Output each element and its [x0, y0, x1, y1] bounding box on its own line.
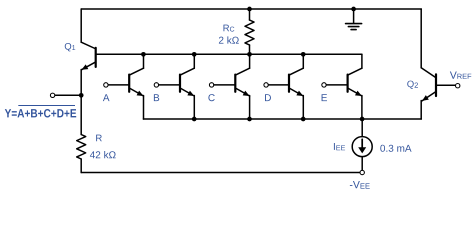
- wire Y output lead: [55, 94, 81, 96]
- transistor Q1: [81, 9, 96, 95]
- node Y junction: [79, 93, 84, 98]
- resistor RC: [245, 9, 254, 54]
- current source IEE: [352, 137, 372, 157]
- wire collector rail (Q1 base to E collector): [97, 53, 362, 55]
- label B: [154, 94, 159, 101]
- node top rail / RC junction: [247, 7, 252, 12]
- transistor input E: [322, 54, 362, 119]
- node C collector / RC junction: [247, 52, 252, 57]
- transistor input B: [154, 54, 194, 119]
- value 0.3 mA: [380, 145, 411, 152]
- label A: [103, 94, 110, 101]
- node D emitter junction: [301, 117, 306, 122]
- label RC: [223, 25, 234, 32]
- wire common emitter rail: [143, 118, 421, 120]
- wire bottom -VEE rail: [81, 172, 360, 174]
- resistor R: [77, 135, 86, 173]
- node C emitter junction: [247, 117, 252, 122]
- wire IEE to -VEE terminal: [361, 157, 363, 171]
- node A collector junction: [141, 52, 146, 57]
- terminal -VEE: [360, 170, 364, 174]
- node D collector junction: [301, 52, 306, 57]
- value 42 kOhm: [90, 151, 116, 158]
- terminal VREF: [456, 84, 460, 88]
- value 2 kOhm: [219, 36, 239, 43]
- ground symbol: [346, 9, 362, 30]
- terminal Y output: [50, 93, 54, 97]
- label IEE: [334, 143, 345, 150]
- wire top supply rail: [81, 8, 421, 10]
- label E: [322, 94, 327, 101]
- transistor input C: [209, 54, 249, 119]
- label VREF: [450, 71, 471, 78]
- wire emitter rail to IEE: [361, 119, 363, 137]
- label -VEE: [350, 181, 370, 189]
- node top rail / ground junction: [351, 7, 356, 12]
- transistor input A: [104, 54, 144, 119]
- label Q1: [65, 43, 75, 51]
- wire Y node to R: [80, 95, 82, 134]
- transistor input D: [264, 54, 303, 119]
- node E emitter / IEE junction: [360, 117, 365, 122]
- transistor Q2: [421, 9, 455, 119]
- node B emitter junction: [192, 117, 197, 122]
- label Q2: [407, 81, 418, 89]
- label Y=A+B+C+D+E with overbar: [5, 106, 76, 118]
- node B collector junction: [192, 52, 197, 57]
- label D: [265, 94, 271, 101]
- label R: [96, 135, 102, 142]
- label C: [208, 94, 214, 101]
